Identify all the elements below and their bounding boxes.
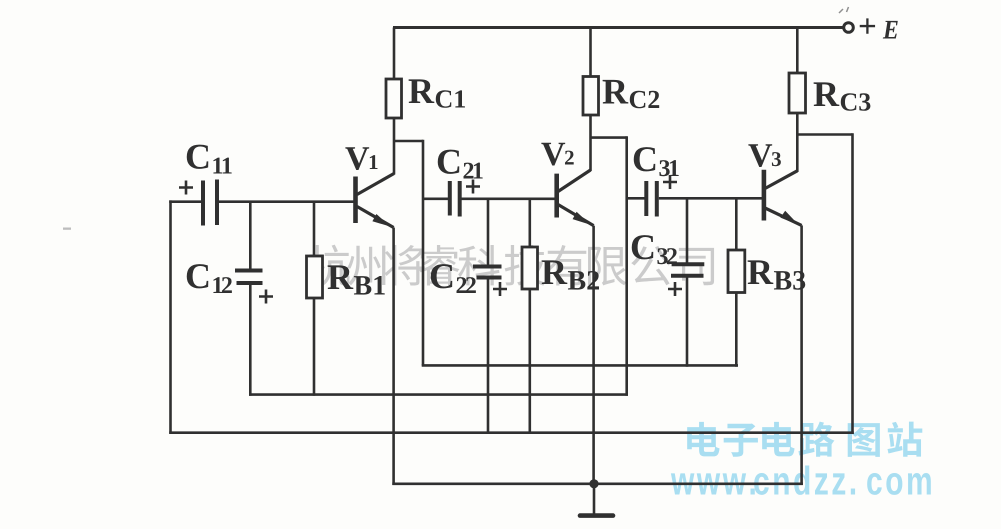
wire: node down to C32 — [686, 198, 689, 264]
watermark: blue url www.cndzz.com — [671, 466, 931, 495]
label RC2 — [603, 80, 660, 108]
terminal +E circle — [844, 23, 854, 33]
watermark: blue site name — [687, 422, 922, 457]
wire: base node down to RB2 — [528, 199, 531, 247]
label V3 — [748, 144, 780, 167]
wire: stage2 feedback node to C31 — [627, 197, 645, 200]
capacitor C32 — [671, 264, 704, 276]
polarity + of C22 — [493, 282, 507, 296]
resistor RB1 — [307, 256, 323, 298]
wire: RB2 down to bus C — [528, 289, 531, 434]
wire: RB1 down to bus B — [313, 298, 316, 396]
resistor RB2 — [522, 247, 538, 289]
label C22 — [431, 264, 476, 293]
wire: stage2 feedback drop — [625, 136, 628, 396]
scan speck above terminal — [839, 7, 849, 13]
wire: bus B — [249, 393, 628, 396]
wire: V1 emitter drop — [392, 228, 395, 486]
wire: V3 emitter drop — [800, 225, 803, 485]
label V2 — [541, 143, 573, 166]
wire: node down to C22 — [487, 199, 490, 267]
label C32 — [632, 235, 677, 264]
wire: base node down to RB1 — [313, 202, 316, 256]
wire: RB3 down to bus A — [735, 293, 738, 367]
label +E — [860, 18, 898, 38]
wire: output feedback drop — [851, 133, 854, 434]
label RC3 — [814, 82, 871, 110]
capacitor C22 — [473, 267, 502, 278]
junction dot — [589, 479, 598, 488]
polarity + of C21 — [466, 180, 480, 194]
resistor RC1 — [386, 79, 402, 118]
wire: +E supply rail — [393, 26, 844, 29]
transistor V3 — [764, 170, 802, 226]
polarity + of C31 — [663, 175, 677, 189]
label RC1 — [409, 79, 465, 107]
label C21 — [438, 150, 483, 179]
resistor RC2 — [583, 77, 599, 116]
wire: rail down to RC2 — [589, 28, 592, 77]
wire: collector node branch right (stage2) — [591, 136, 627, 139]
capacitor C21 — [450, 181, 460, 217]
watermark: gray company text — [308, 245, 714, 286]
label RB1 — [328, 265, 385, 294]
label C31 — [634, 147, 679, 176]
wire: collector node branch right — [394, 140, 423, 143]
wire: C22 down to bus C — [487, 278, 490, 435]
wire: input node to C11 — [169, 200, 201, 203]
wire: V2 emitter drop to ground junction — [592, 226, 595, 484]
wire: collector node branch right (output) — [797, 133, 852, 136]
wire: C32 down to bus A — [686, 276, 689, 367]
wire: bus D emitter/ground — [392, 482, 803, 485]
capacitor C31 — [646, 181, 657, 217]
wire: bus A — [422, 364, 738, 367]
capacitor C12 — [235, 271, 263, 284]
wire: node down to C12 — [249, 202, 252, 270]
wire: RC1 to V1 collector — [393, 118, 396, 175]
wire: left input line down — [169, 200, 172, 433]
wire: bus C — [169, 431, 854, 434]
resistor RB3 — [728, 250, 745, 293]
wire: rail down to RC1 — [393, 28, 396, 80]
label V1 — [345, 147, 377, 170]
wire: rail down to RC3 — [796, 28, 799, 74]
wire: stage1 feedback node to C21 — [423, 198, 448, 201]
label C11 — [187, 145, 232, 174]
capacitor C11 — [203, 180, 217, 226]
wire: base node down to RB3 — [735, 198, 738, 250]
wire: RC3 to V3 collector — [796, 113, 799, 172]
label RB3 — [748, 260, 806, 289]
scan speck left — [63, 228, 71, 230]
label RB2 — [542, 260, 599, 289]
wire: stage1 feedback drop — [422, 140, 425, 366]
wire: C21 to V2 base — [462, 198, 556, 201]
transistor V2 — [557, 170, 594, 226]
polarity + of C32 — [668, 282, 682, 296]
ground — [580, 484, 613, 516]
label C12 — [187, 264, 232, 293]
polarity + of C11 — [179, 181, 193, 195]
wire: C11 to V1 base — [219, 200, 354, 203]
transistor V1 — [356, 174, 395, 228]
wire: C12 down to bus B — [249, 283, 252, 396]
resistor RC3 — [789, 73, 806, 113]
wire: C31 to V3 base — [659, 197, 763, 200]
polarity + of C12 — [259, 290, 273, 304]
wire: RC2 to V2 collector — [589, 115, 592, 171]
